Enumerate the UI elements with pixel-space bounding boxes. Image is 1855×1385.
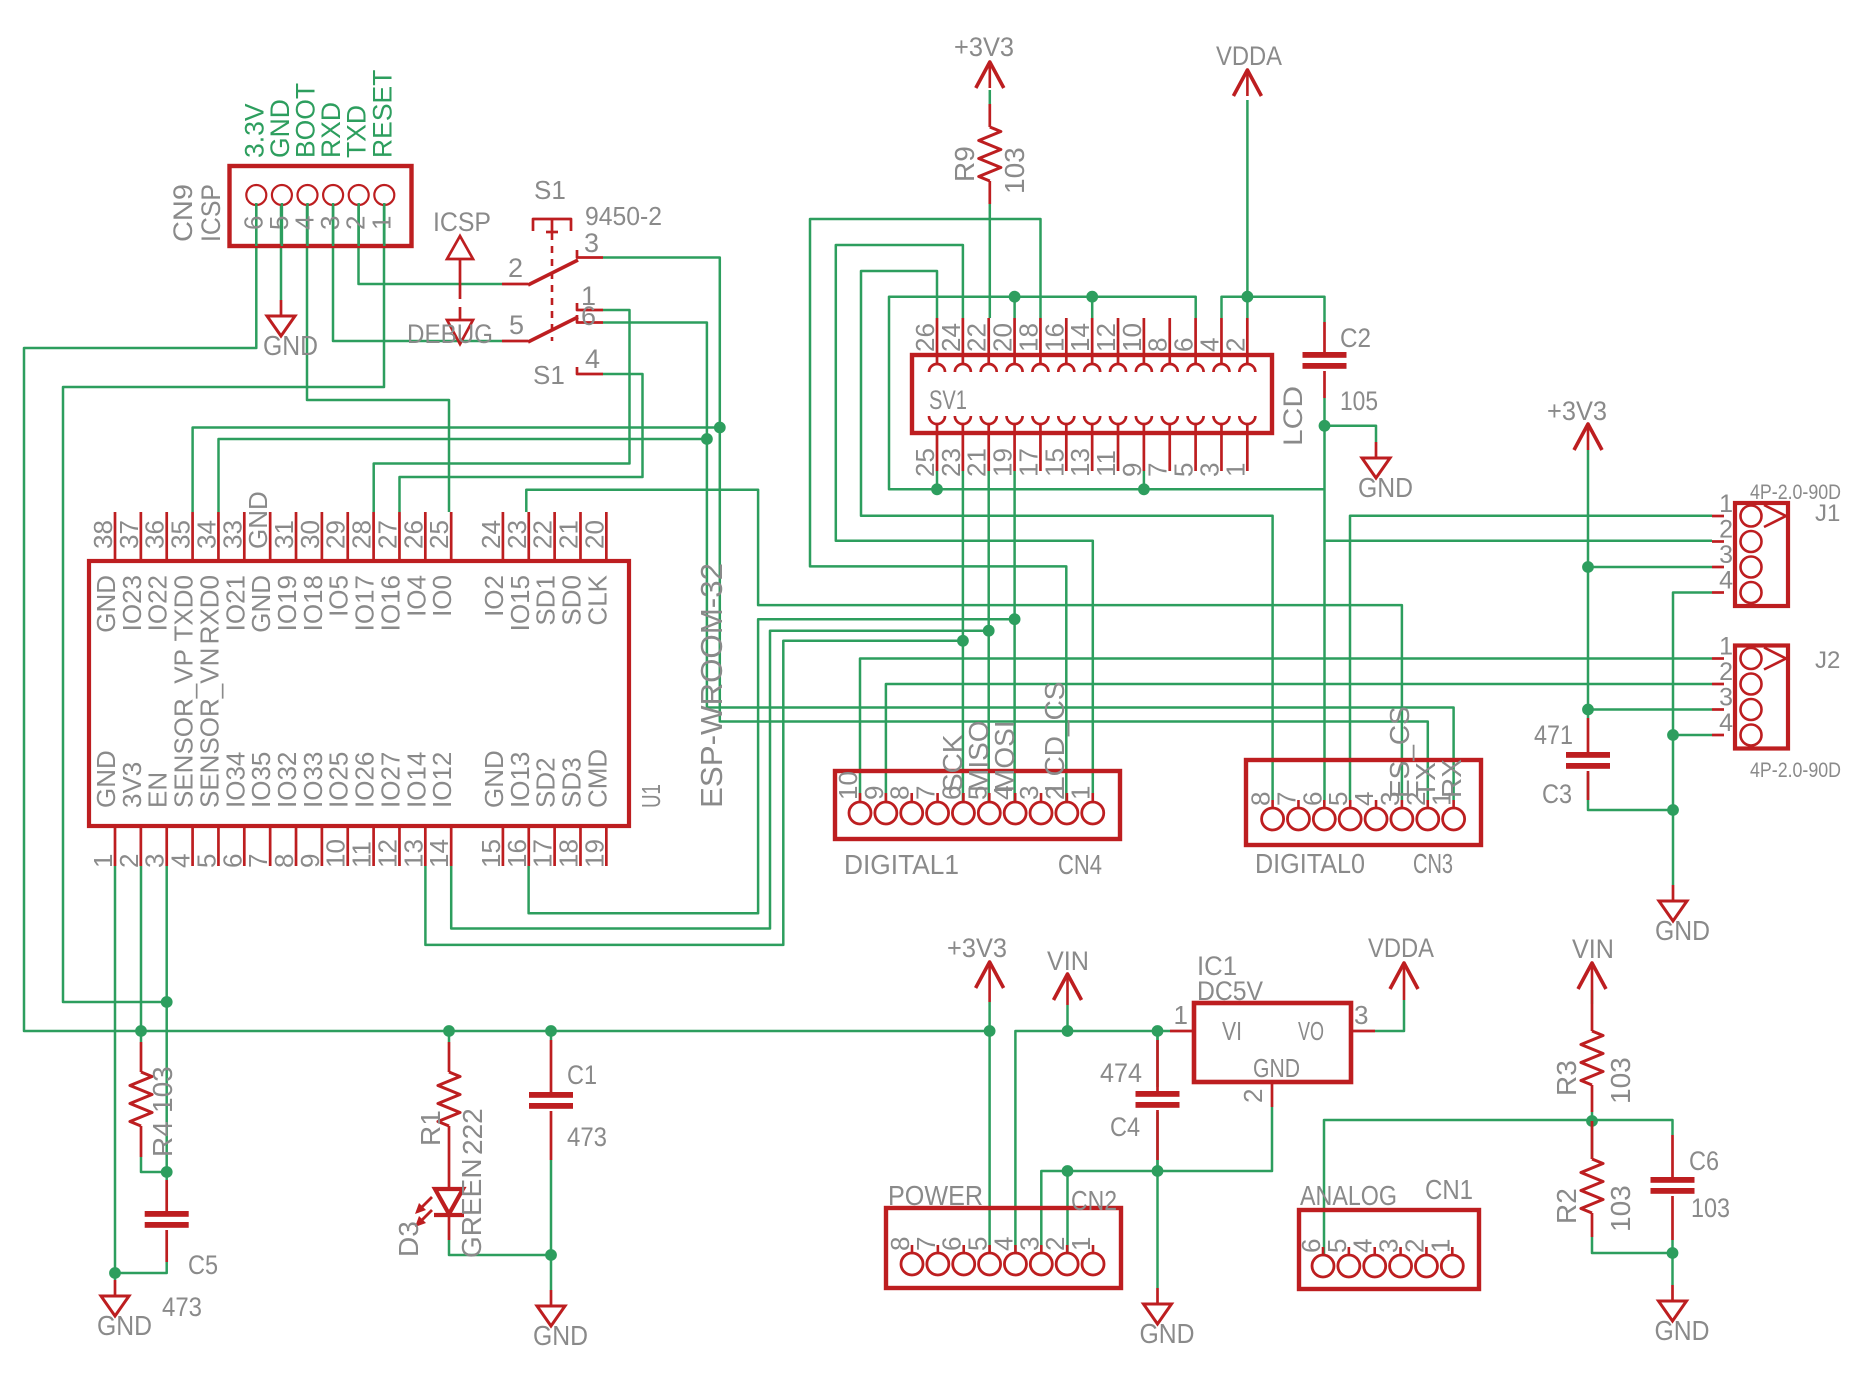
wire R4 bottom to EN column: [141, 1157, 167, 1172]
svg-text:CN9: CN9: [168, 184, 198, 242]
svg-text:VIN: VIN: [1047, 946, 1089, 976]
CN2 pin 4: [1014, 1245, 1017, 1252]
svg-text:IO0: IO0: [427, 575, 457, 617]
wire SV1 pin19 to CN4 pin4 MOSI column: [1013, 471, 1016, 801]
CN2 pin 8: [911, 1245, 914, 1252]
wire R2 bottom to C6 bottom junction: [1592, 1237, 1673, 1253]
junction: [701, 433, 713, 445]
svg-text:U1: U1: [636, 784, 666, 808]
wire C5 bottom to GND column: [115, 1262, 167, 1273]
SV1 top pin 4: [1220, 318, 1223, 364]
CN3 pin 7: [1297, 800, 1300, 807]
svg-text:CMD: CMD: [582, 749, 612, 808]
CN2 pin 6: [962, 1245, 965, 1252]
SV1 bottom pin 1: [1246, 424, 1249, 471]
svg-text:C4: C4: [1110, 1112, 1140, 1142]
junction: [1138, 483, 1150, 495]
svg-text:LCD: LCD: [1278, 386, 1308, 446]
U1 bottom pin 10 stub: [346, 826, 349, 866]
ground symbol right of C2: [1375, 442, 1378, 458]
connector CN9 pin 6 circle: [246, 185, 266, 205]
net flag ICSP arrow: [447, 236, 473, 259]
SV1 bottom pin 7: [1168, 424, 1171, 471]
U1 top pin 29 stub: [346, 512, 349, 561]
svg-text:3: 3: [584, 228, 599, 258]
U1 top pin 27 stub: [398, 512, 401, 561]
U1 bottom pin 2 stub: [140, 826, 143, 866]
svg-text:C2: C2: [1340, 323, 1371, 353]
svg-text:CN4: CN4: [1058, 849, 1102, 880]
wire C4 top stub connect: [1156, 1031, 1159, 1040]
U1 top pin GND stub: [269, 512, 272, 561]
wire net MOSI from U1 IO13: [529, 619, 1015, 913]
junction: [1319, 420, 1331, 432]
wire IC1 pin3 to VDDA arrow: [1375, 1000, 1404, 1031]
U1 bottom pin 1 stub: [114, 826, 117, 866]
U1 top pin 26 stub: [424, 512, 427, 561]
svg-text:14: 14: [424, 839, 454, 868]
SV1 top pin 20: [1013, 318, 1016, 364]
wire net ES_CS from U1 IO15 to CN3 pin3: [526, 490, 1402, 800]
svg-text:GREEN: GREEN: [456, 1158, 487, 1258]
svg-text:CN3: CN3: [1413, 848, 1453, 879]
J1 pin1 chevron: [1764, 505, 1786, 527]
svg-text:RX: RX: [1436, 759, 1467, 798]
svg-text:1: 1: [366, 216, 396, 230]
junction: [1009, 613, 1021, 625]
CN1 pin 4: [1373, 1247, 1376, 1254]
capacitor C4: [1156, 1040, 1159, 1091]
SV1 top pin 6: [1194, 318, 1197, 364]
svg-text:4: 4: [585, 344, 600, 374]
connector SV1 LCD box: [912, 355, 1272, 433]
CN4 pin 4: [1014, 793, 1017, 801]
wire C2 bottom to GND symbol and CN3 pin6: [1323, 398, 1326, 426]
switch S1 pin3 stub: [577, 250, 603, 258]
wire VIN2 arrow to R3: [1591, 990, 1594, 1004]
U1 top pin 31 stub: [295, 512, 298, 561]
SV1 top pin 8: [1168, 318, 1171, 364]
wire +3V3 arrow at J area down to C3: [1587, 450, 1590, 718]
svg-text:1: 1: [1719, 490, 1733, 518]
svg-text:4: 4: [1719, 709, 1733, 737]
wire R1 top: [448, 1031, 451, 1042]
svg-text:473: 473: [567, 1122, 607, 1152]
svg-text:2: 2: [1220, 338, 1250, 352]
svg-text:103: 103: [147, 1066, 178, 1113]
U1 top pin 20 stub: [605, 512, 608, 561]
junction: [1086, 291, 1098, 303]
svg-text:103: 103: [999, 147, 1030, 194]
svg-text:3: 3: [1719, 541, 1733, 569]
svg-text:474: 474: [1100, 1058, 1142, 1088]
U1 top pin 24 stub: [502, 512, 505, 561]
svg-text:103: 103: [1605, 1057, 1636, 1104]
CN2 pin 7: [937, 1245, 940, 1252]
junction: [135, 1025, 147, 1037]
svg-text:+3V3: +3V3: [947, 933, 1007, 963]
CN4 pin 3: [1040, 793, 1043, 801]
junction: [1152, 1165, 1164, 1177]
SV1 top pin 2: [1246, 318, 1249, 364]
wire CN2 pin4 riser joins VIN row: [1015, 1031, 1170, 1252]
wire net EN U1 pin3 riser: [165, 866, 168, 1002]
U1 top pin 30 stub: [321, 512, 324, 561]
CN4 pin 8: [910, 793, 913, 801]
IC1 pin 2 stub: [1271, 1082, 1274, 1107]
svg-text:CN2: CN2: [1071, 1185, 1117, 1216]
svg-text:6: 6: [581, 301, 596, 331]
svg-text:J1: J1: [1815, 500, 1840, 527]
switch S1 contact B blade: [528, 317, 578, 342]
wire CN4 pin9 to J2 pin2: [886, 684, 1712, 801]
connector J2 box: [1735, 646, 1788, 749]
wire D3 bottom to C1 column: [449, 1240, 551, 1255]
svg-text:VIN: VIN: [1572, 934, 1614, 964]
wire net TXD CN9 pin2 to S1 pin2: [359, 203, 503, 284]
wire SV1 pin26 loop to CN3 pin8: [861, 271, 1273, 800]
connector CN9 pin 3 circle: [323, 185, 343, 205]
CN3 pin 8: [1271, 800, 1274, 807]
wire GND riser SV1 pin14: [1091, 297, 1094, 318]
wire J1 pin4 / J2 pin4 / GND column: [1673, 593, 1712, 886]
wire net GND SV1 row above connector: [889, 297, 1325, 490]
CN1 pin 2: [1425, 1247, 1428, 1254]
connector CN9 pin 5 circle: [272, 185, 292, 205]
svg-text:R2: R2: [1551, 1188, 1582, 1224]
net flag DEBUG arrow: [447, 320, 473, 344]
switch S1 pin6 stub: [577, 315, 603, 323]
J1 pin 1: [1712, 515, 1724, 518]
wire net SCK from U1 IO14: [425, 641, 963, 945]
SV1 top pin 18: [1039, 318, 1042, 364]
SV1 bottom pin 15: [1065, 424, 1068, 471]
CN4 pin 7: [936, 793, 939, 801]
svg-text:GND: GND: [1358, 472, 1413, 503]
svg-text:9450-2: 9450-2: [585, 201, 662, 231]
svg-text:ESP-WROOM-32: ESP-WROOM-32: [694, 563, 729, 808]
wire C4 bottom to GND row: [1156, 1112, 1159, 1171]
CN3 pin 1: [1452, 800, 1455, 807]
connector J1 box: [1735, 503, 1788, 606]
SV1 top pin 12: [1117, 318, 1120, 364]
svg-text:4P-2.0-90D: 4P-2.0-90D: [1750, 759, 1841, 782]
wire CN2 pin2 riser: [1066, 1171, 1069, 1252]
capacitor C6: [1671, 1135, 1674, 1177]
wire SV1 pin21 to CN4 pin5 MISO column: [987, 471, 990, 801]
svg-text:2: 2: [1719, 516, 1733, 544]
wire SV1 pin23 to CN4 pin6 SCK column: [962, 471, 965, 801]
SV1 top pin 16: [1065, 318, 1068, 364]
wire R2 top: [1591, 1121, 1594, 1159]
wire +3V3 arrow top to R9: [989, 90, 992, 104]
wire net GND CN9 pin5 stub: [280, 203, 283, 300]
svg-text:GND: GND: [533, 1320, 588, 1351]
SV1 top pin 14: [1091, 318, 1094, 364]
junction: [545, 1025, 557, 1037]
wire +3V3 bottom arrow to CN2 pin5: [988, 1002, 991, 1252]
svg-text:4: 4: [1719, 567, 1733, 595]
J1 pin 2: [1712, 540, 1724, 543]
J2 pin 2: [1712, 683, 1724, 686]
SV1 bottom pin 23: [962, 424, 965, 471]
U1 bottom pin 12 stub: [398, 826, 401, 866]
LED D3 emission arrows: [417, 1197, 432, 1212]
svg-text:DEBUG: DEBUG: [407, 319, 493, 349]
wire net LCD_CS SV1 pin18 loop to CN4 pin2: [810, 219, 1066, 801]
IC1 pin 1 stub: [1170, 1030, 1194, 1033]
junction: [443, 1025, 455, 1037]
CN1 pin 6: [1322, 1247, 1325, 1254]
svg-text:MOSI: MOSI: [989, 720, 1020, 792]
junction: [1586, 1115, 1598, 1127]
junction: [1152, 1025, 1164, 1037]
svg-text:GND: GND: [1253, 1053, 1300, 1083]
CN4 pin 5: [988, 793, 991, 801]
SV1 bottom pin 21: [987, 424, 990, 471]
svg-text:C6: C6: [1689, 1146, 1719, 1176]
svg-text:ICSP: ICSP: [433, 207, 491, 237]
CN3 pin 3: [1401, 800, 1404, 807]
svg-text:5: 5: [509, 310, 524, 340]
wire S1 pin4 to U1 IO16: [400, 374, 643, 512]
svg-text:VO: VO: [1298, 1016, 1324, 1046]
svg-text:C3: C3: [1542, 779, 1572, 809]
U1 bottom pin 17 stub: [553, 826, 556, 866]
svg-text:19: 19: [579, 839, 609, 868]
svg-text:+3V3: +3V3: [1547, 396, 1607, 426]
U1 bottom pin 9 stub: [321, 826, 324, 866]
junction: [1582, 704, 1594, 716]
svg-text:C5: C5: [188, 1250, 218, 1280]
wire J2 pin3 row: [1588, 708, 1712, 711]
wire net EN continues to R4/C5 node: [165, 1002, 168, 1180]
junction: [1062, 1025, 1074, 1037]
svg-text:RESET: RESET: [367, 70, 397, 158]
junction: [931, 483, 943, 495]
svg-text:1: 1: [1220, 463, 1250, 477]
wire J1 pin1 to CN3 pin5: [1350, 516, 1712, 800]
IC U1 ESP-WROOM-32 box: [89, 561, 629, 826]
svg-text:GND: GND: [1655, 1315, 1710, 1346]
J2 pin 1: [1712, 657, 1724, 660]
svg-text:ICSP: ICSP: [196, 184, 226, 242]
junction: [1582, 561, 1594, 573]
junction: [1062, 1165, 1074, 1177]
IC1 pin 3 stub: [1351, 1030, 1375, 1033]
CN4 pin 9: [885, 793, 888, 801]
switch S1 contact B pin5 stub: [502, 340, 528, 343]
junction: [161, 1166, 173, 1178]
SV1 top pin 10: [1143, 318, 1146, 364]
svg-text:R1: R1: [415, 1110, 446, 1146]
svg-text:CN1: CN1: [1425, 1174, 1473, 1205]
svg-text:DC5V: DC5V: [1197, 976, 1263, 1006]
capacitor C5: [165, 1180, 168, 1211]
wire net RESET CN9 pin1 to EN rail: [63, 203, 384, 1002]
U1 top pin 34 stub: [217, 512, 220, 561]
wire net 3V3 U1 pin2 riser: [140, 866, 143, 1031]
wire net BOOT CN9 pin4 to U1 IO0: [307, 203, 449, 512]
U1 bottom pin 6 stub: [243, 826, 246, 866]
U1 top pin 33 stub: [243, 512, 246, 561]
U1 bottom pin 19 stub: [605, 826, 608, 866]
J2 pin 4: [1712, 734, 1724, 737]
U1 bottom pin 18 stub: [579, 826, 582, 866]
SV1 top pin 22: [987, 318, 990, 364]
resistor R4: [140, 1042, 143, 1072]
connector CN2 POWER box: [886, 1208, 1121, 1288]
LED D3: [448, 1160, 451, 1188]
switch S1 contact A pin2 stub: [502, 283, 528, 286]
CN3 pin 2: [1426, 800, 1429, 807]
capacitor C3: [1587, 718, 1590, 752]
ground symbol below C4: [1156, 1288, 1159, 1304]
svg-text:J2: J2: [1815, 647, 1840, 674]
wire R9 bottom to SV1 pin22: [989, 204, 992, 318]
svg-text:GND: GND: [263, 330, 318, 361]
switch S1 dashed link: [551, 233, 554, 341]
junction: [1667, 729, 1679, 741]
svg-text:471: 471: [1534, 720, 1573, 750]
wire net 3V3 from CN9 pin6 down-left-down to bottom rail: [24, 203, 990, 1031]
wire GND symbol column below C4: [1156, 1171, 1159, 1288]
wire GND riser SV1 pin25: [936, 471, 939, 489]
svg-text:VDDA: VDDA: [1216, 41, 1282, 71]
svg-text:2: 2: [508, 253, 523, 283]
wire net RXD CN9 pin3 to S1 pin5: [333, 203, 502, 341]
ground symbol bottom right: [1671, 1285, 1674, 1301]
wire VDDA row to SV1 pin4 and C2 top: [1222, 297, 1325, 322]
svg-text:DIGITAL0: DIGITAL0: [1255, 848, 1365, 879]
J1 pin 3: [1712, 566, 1724, 569]
svg-text:222: 222: [457, 1108, 488, 1155]
svg-text:2: 2: [1238, 1089, 1268, 1103]
svg-text:SV1: SV1: [929, 385, 967, 415]
junction: [714, 422, 726, 434]
J2 pin 3: [1712, 708, 1724, 711]
SV1 bottom pin 17: [1039, 424, 1042, 471]
connector CN9 pin 1 circle: [374, 185, 394, 205]
connector CN9 ICSP box: [230, 166, 412, 246]
svg-text:GND: GND: [1655, 915, 1710, 946]
CN3 pin 5: [1349, 800, 1352, 807]
wire C1 column: [550, 1031, 553, 1040]
svg-text:20: 20: [579, 520, 609, 549]
capacitor C2: [1323, 322, 1326, 352]
svg-text:1: 1: [1425, 1239, 1455, 1253]
svg-text:473: 473: [162, 1292, 202, 1322]
connector CN4 DIGITAL1 box: [835, 771, 1120, 839]
junction: [957, 635, 969, 647]
junction: [1667, 1247, 1679, 1259]
U1 top pin 38 stub: [114, 512, 117, 561]
switch S1 pin4 stub: [577, 367, 603, 374]
svg-text:3: 3: [1719, 684, 1733, 712]
svg-text:1: 1: [1066, 1237, 1096, 1251]
U1 bottom pin 3 stub: [165, 826, 168, 866]
svg-text:105: 105: [1340, 386, 1378, 416]
U1 bottom pin 7 stub: [269, 826, 272, 866]
svg-text:D3: D3: [393, 1221, 424, 1257]
resistor R9: [988, 104, 991, 127]
CN1 pin 5: [1348, 1247, 1351, 1254]
CN3 pin 6: [1323, 800, 1326, 807]
svg-text:GND: GND: [1140, 1318, 1195, 1349]
wire C6 bottom to GND: [1671, 1240, 1674, 1285]
J1 pin 4: [1712, 591, 1724, 594]
svg-text:IO12: IO12: [427, 752, 457, 808]
wire C3 bottom to GND column: [1588, 773, 1673, 810]
wire R4 top: [140, 1031, 143, 1042]
SV1 bottom pin 25: [936, 424, 939, 471]
J2 pin1 chevron: [1764, 648, 1786, 670]
wire net MISO from U1 IO12: [451, 631, 989, 929]
SV1 bottom pin 9: [1143, 424, 1146, 471]
resistor R3: [1591, 1004, 1594, 1031]
wire net GND J1 pin2 branch from C2 column: [1325, 540, 1713, 543]
wire net TXD0 U1 pin35 to S1 pin3 column: [193, 428, 720, 513]
switch S1 actuator: [533, 219, 571, 231]
wire R3 bottom junction: [1591, 1112, 1594, 1121]
wire J2 pin4 connect: [1673, 734, 1712, 737]
U1 bottom pin 11 stub: [372, 826, 375, 866]
CN4 pin 10: [859, 793, 862, 801]
connector CN3 DIGITAL0 box: [1246, 760, 1481, 845]
CN1 pin 3: [1399, 1247, 1402, 1254]
junction: [545, 1249, 557, 1261]
U1 bottom pin 5 stub: [217, 826, 220, 866]
svg-text:R3: R3: [1551, 1060, 1582, 1096]
switch S1 pin1 stub: [577, 303, 603, 310]
SV1 bottom pin 3: [1220, 424, 1223, 471]
U1 top pin 37 stub: [140, 512, 143, 561]
SV1 bottom pin 13: [1091, 424, 1094, 471]
ground symbol below C1: [550, 1290, 553, 1306]
svg-text:GND: GND: [97, 1310, 152, 1341]
wire CN4 pin10 to J2 pin1: [860, 659, 1712, 802]
wire net VDDA arrow to SV1 pin2 and C2: [1246, 100, 1249, 318]
svg-text:C1: C1: [567, 1060, 597, 1090]
svg-text:R4: R4: [147, 1121, 178, 1157]
resistor R1: [448, 1042, 451, 1072]
wire GND riser SV1 pin20: [1013, 297, 1016, 318]
CN3 pin 4: [1375, 800, 1378, 807]
SV1 bottom pin 11: [1117, 424, 1120, 471]
junction: [983, 625, 995, 637]
U1 top pin 21 stub: [579, 512, 582, 561]
wire J1 pin3 row from +3V3 column: [1588, 566, 1712, 569]
IC IC1 DC5V regulator box: [1194, 1003, 1351, 1082]
U1 top pin 35 stub: [191, 512, 194, 561]
U1 bottom pin 14 stub: [450, 826, 453, 866]
CN4 pin 2: [1066, 793, 1069, 801]
svg-text:VI: VI: [1222, 1016, 1242, 1046]
connector CN9 pin 2 circle: [349, 185, 369, 205]
svg-text:S1: S1: [534, 175, 566, 205]
capacitor C1: [550, 1040, 553, 1092]
svg-text:S1: S1: [533, 360, 565, 390]
SV1 top pin 26: [936, 318, 939, 364]
CN2 pin 1: [1092, 1245, 1095, 1252]
U1 top pin 25 stub: [450, 512, 453, 561]
wire VIN arrow to rail: [1066, 1005, 1069, 1031]
wire net RXD0 U1 pin34 to S1 pin6 column: [219, 439, 707, 512]
junction: [1009, 291, 1021, 303]
svg-text:25: 25: [424, 520, 454, 549]
junction: [984, 1025, 996, 1037]
CN4 pin 1: [1091, 793, 1094, 801]
